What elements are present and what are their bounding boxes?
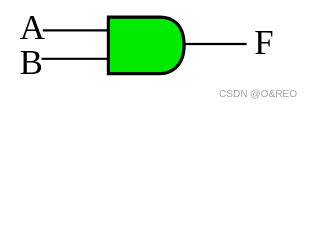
wire output F xyxy=(184,43,247,45)
wire input A xyxy=(43,29,111,31)
wire input B xyxy=(42,58,112,60)
svg-text:CSDN @O&REO: CSDN @O&REO xyxy=(219,89,297,100)
svg-text:A: A xyxy=(20,8,45,47)
AND gate U1 xyxy=(108,17,184,74)
svg-text:B: B xyxy=(20,43,43,82)
svg-text:F: F xyxy=(254,23,273,62)
